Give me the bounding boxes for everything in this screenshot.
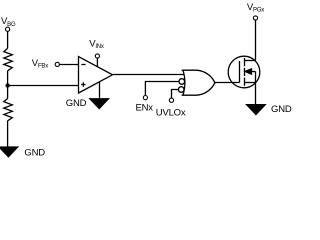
transistor Q1 (MOSFET) [228,56,260,88]
svg-text:GND: GND [271,104,292,115]
wire VFBx to op-amp minus input [59,64,78,66]
wire VPGx to drain [255,20,257,60]
wire gate output to MOSFET gate [215,82,240,84]
wire VINx to op-amp top [96,58,98,67]
wire R2 to ground [7,121,9,147]
terminal UVLOx [169,98,173,102]
ground GND1 [0,147,18,157]
wire VBG to R1 [7,31,9,48]
inverting bubble ENx input [179,79,185,85]
wire op-amp to ground [99,81,101,98]
terminal VPGx [253,16,257,20]
terminal VINx [95,54,99,58]
wire UVLOx to gate [172,90,179,98]
node junction dot [5,83,9,87]
svg-text:UVLOx: UVLOx [156,107,186,118]
wire source to ground [255,83,257,105]
wire op-amp output to gate [113,74,185,76]
ground GND3 [247,105,266,115]
resistor R1 [4,48,13,70]
resistor R2 [4,99,13,121]
terminal ENx [143,96,147,100]
terminal VBG [6,27,10,31]
wire junction to op-amp plus input [8,85,79,87]
op-amp U1 [79,57,113,93]
terminal VFBx [55,62,59,66]
wire ENx to gate [145,82,179,96]
inverting bubble UVLOx input [178,87,184,93]
svg-text:GND: GND [24,147,45,158]
or-gate U2 [182,70,215,95]
svg-text:GND: GND [66,98,87,109]
wire R1 to R2 [7,71,9,99]
svg-text:ENx: ENx [136,102,154,113]
ground GND2 [90,99,109,109]
